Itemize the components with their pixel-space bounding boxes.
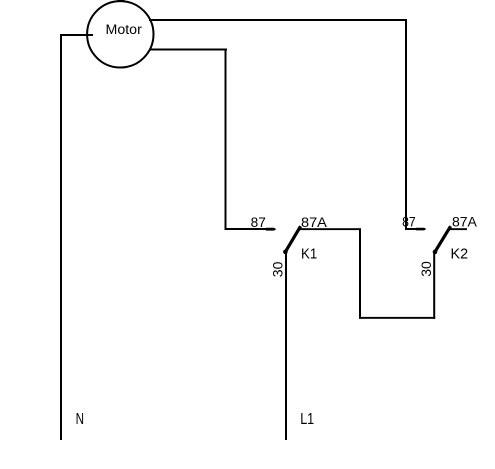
svg-text:N: N (76, 411, 84, 428)
svg-text:Motor: Motor (106, 22, 143, 38)
relay K2 fixed contact 87 stub (405, 228, 425, 230)
svg-text:87: 87 (402, 213, 416, 229)
relay K1 pivot junction (pin 30) (283, 250, 288, 255)
svg-text:K1: K1 (301, 246, 317, 262)
wire motor left lead (60, 34, 93, 36)
motor top terminal tick (118, 0, 125, 2)
relay K1 fixed contact 87 stub (225, 228, 267, 230)
relay K1 87A terminal wire (300, 228, 361, 230)
wire motor top lead (to K2 87) (149, 19, 407, 21)
svg-text:L1: L1 (300, 411, 314, 428)
wire motor bottom lead (150, 49, 227, 51)
wire bottom run (K1 87A to K2 30) (359, 317, 435, 319)
relay K1 blade (285, 226, 300, 252)
wire K1 87A drop (359, 229, 361, 319)
svg-text:87: 87 (251, 215, 266, 231)
relay K2 blade (435, 226, 451, 252)
wire N rail (left vertical) (60, 34, 62, 440)
svg-text:30: 30 (270, 261, 286, 277)
wire K2 87 drop (405, 19, 407, 230)
relay K2 pivot junction (pin 30) (433, 250, 438, 255)
svg-text:K2: K2 (451, 246, 469, 262)
wire L1 rail (K1 30 down) (285, 252, 287, 440)
svg-text:30: 30 (419, 261, 435, 277)
wire K1 87 drop (225, 49, 227, 231)
relay K2 87A terminal wire (450, 228, 468, 230)
wire K2 30 drop (pivot down) (433, 252, 435, 319)
svg-text:87A: 87A (301, 215, 327, 231)
motor M1 (87, 1, 153, 67)
svg-text:87A: 87A (452, 215, 477, 231)
